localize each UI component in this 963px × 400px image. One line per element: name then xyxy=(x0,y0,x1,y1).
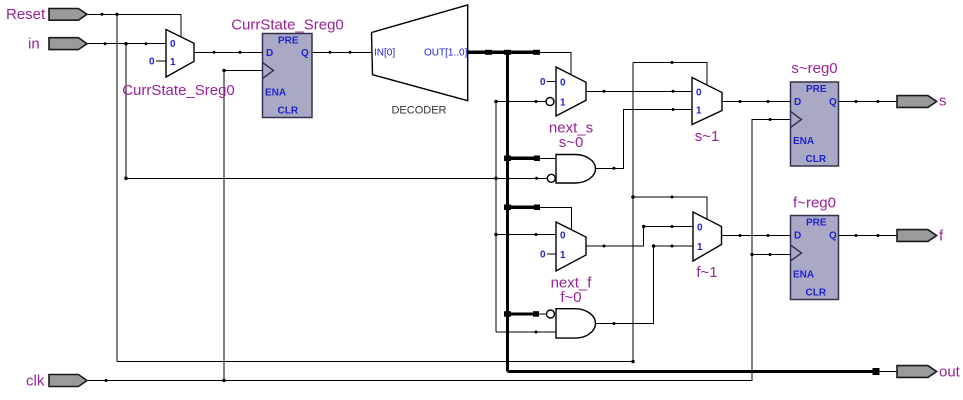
and gate f~0 xyxy=(556,309,595,338)
wire CurrState Q to decoder IN xyxy=(312,51,372,53)
inverter bubble next_s input 1 xyxy=(546,98,554,106)
wire select distribution vertical x633 xyxy=(632,63,634,362)
wire to f~0 bottom input xyxy=(496,331,556,333)
and gate s~0 xyxy=(556,155,595,184)
junction dot xyxy=(329,51,332,54)
svg-text:0: 0 xyxy=(697,223,703,234)
inverter bubble f~0 top input xyxy=(547,310,555,318)
svg-text:s~reg0: s~reg0 xyxy=(791,60,837,77)
svg-text:Q: Q xyxy=(829,97,837,108)
junction dot xyxy=(535,331,538,334)
junction dot xyxy=(671,225,674,228)
junction dot xyxy=(672,90,675,93)
junction dot xyxy=(652,244,656,248)
svg-text:Q: Q xyxy=(829,231,837,242)
junction dot xyxy=(613,167,616,170)
junction dot xyxy=(877,234,880,237)
junction dot xyxy=(631,195,635,199)
svg-text:0: 0 xyxy=(540,250,546,261)
junction dot xyxy=(672,108,675,111)
output port s xyxy=(897,96,937,108)
output port out xyxy=(897,366,937,378)
svg-text:0: 0 xyxy=(540,77,546,88)
svg-text:ENA: ENA xyxy=(265,88,286,99)
wire clk branch to f~reg0 clock xyxy=(752,254,791,256)
bus tap stub to s~0 xyxy=(508,157,539,160)
bus bottom horizontal to out xyxy=(508,370,877,373)
constant 0 dash at next_s input 0 xyxy=(547,81,556,83)
junction dot xyxy=(671,61,674,64)
bus junction blob xyxy=(485,50,492,55)
svg-text:0: 0 xyxy=(149,57,155,68)
input port Reset xyxy=(49,9,87,21)
junction dot xyxy=(613,322,616,325)
mux f~1 xyxy=(693,212,722,261)
svg-text:s~1: s~1 xyxy=(695,128,720,145)
svg-text:f~1: f~1 xyxy=(696,264,717,281)
wire clk vertical x224 to CurrState clock xyxy=(224,71,263,381)
junction dot xyxy=(535,100,538,103)
svg-text:s~0: s~0 xyxy=(559,134,584,151)
svg-text:0: 0 xyxy=(560,231,566,242)
svg-text:in: in xyxy=(28,36,40,53)
flip-flop s~reg0 xyxy=(791,82,839,166)
svg-text:CurrState_Sreg0: CurrState_Sreg0 xyxy=(122,82,235,99)
wire next_s select thin from bus tap xyxy=(539,52,572,75)
junction dot xyxy=(603,245,606,248)
mux CurrState_Sreg0 xyxy=(166,30,194,78)
wire s~1 output to s~reg0 D xyxy=(722,101,791,103)
junction dot xyxy=(115,13,118,16)
output port f xyxy=(897,230,937,242)
junction dot xyxy=(494,100,498,104)
svg-text:DECODER: DECODER xyxy=(391,105,446,117)
junction dot xyxy=(855,100,858,103)
svg-text:CurrState_Sreg0: CurrState_Sreg0 xyxy=(231,17,344,34)
wire in branch vertical x126 xyxy=(125,44,127,179)
svg-text:OUT[1..0]: OUT[1..0] xyxy=(424,48,468,59)
mux next_f xyxy=(556,222,586,271)
wire in distribution vertical x496 xyxy=(495,102,497,333)
constant 0 dash at next_f input 1 xyxy=(547,253,556,255)
svg-text:CLR: CLR xyxy=(806,288,827,299)
junction dot xyxy=(494,177,498,181)
wire out port thin stub xyxy=(876,371,897,373)
svg-text:out: out xyxy=(939,364,961,381)
wire s~reg0 Q to s port xyxy=(839,101,897,103)
wire f~reg0 Q to f port xyxy=(839,235,897,237)
wire f~1 output to f~reg0 D xyxy=(722,235,791,237)
junction dot xyxy=(855,234,858,237)
wire f~0 top input thin from bus tap to bubble xyxy=(539,313,547,315)
junction dot xyxy=(239,51,242,54)
junction dot xyxy=(535,177,538,180)
junction dot xyxy=(535,233,538,236)
svg-text:1: 1 xyxy=(560,98,566,109)
input port clk xyxy=(49,375,87,387)
junction dot xyxy=(631,360,635,364)
junction dot xyxy=(105,379,108,382)
junction dot xyxy=(767,234,770,237)
flip-flop f~reg0 xyxy=(791,216,839,300)
wire to next_s input 1 bubble xyxy=(496,101,546,103)
mux s~1 xyxy=(692,78,722,125)
junction dot xyxy=(739,234,742,237)
junction dot xyxy=(739,100,742,103)
bus vertical main xyxy=(506,52,509,371)
bus junction blob xyxy=(873,368,880,375)
bus junction blob xyxy=(504,156,511,162)
junction dot xyxy=(671,245,674,248)
decoder DECODER xyxy=(372,5,468,101)
wire f~0 output riser to f~1 input 1 xyxy=(596,246,693,324)
svg-text:PRE: PRE xyxy=(806,84,827,95)
input port in xyxy=(49,38,87,50)
wire Reset from port to mux select corner xyxy=(87,13,181,15)
wire Reset branch horizontal y361 xyxy=(117,361,633,363)
svg-text:PRE: PRE xyxy=(806,218,827,229)
junction dot xyxy=(222,379,225,382)
wire clk main xyxy=(87,120,791,381)
constant 0 dash at CurrState mux input 1 xyxy=(156,60,166,62)
junction dot xyxy=(642,225,646,229)
svg-text:f~0: f~0 xyxy=(560,289,581,306)
svg-text:D: D xyxy=(794,97,801,108)
bus tap stub to f~0 xyxy=(508,312,539,315)
wire to next_f input 0 xyxy=(496,234,556,236)
junction dot xyxy=(767,100,770,103)
junction dot xyxy=(769,118,772,121)
svg-text:0: 0 xyxy=(170,39,176,50)
junction dot xyxy=(671,196,674,199)
inverter bubble s~0 bottom input xyxy=(547,174,555,182)
bus junction blob xyxy=(533,311,539,317)
svg-text:D: D xyxy=(266,48,273,59)
svg-text:f~reg0: f~reg0 xyxy=(793,195,836,212)
junction dot xyxy=(222,69,225,72)
junction dot xyxy=(213,51,216,54)
svg-text:Reset: Reset xyxy=(6,6,46,23)
wire in from port to CurrState mux input 0 xyxy=(87,43,166,45)
bus junction blob xyxy=(504,205,511,211)
svg-text:PRE: PRE xyxy=(278,36,299,47)
junction dot xyxy=(769,253,772,256)
svg-text:ENA: ENA xyxy=(793,270,814,281)
svg-text:1: 1 xyxy=(697,242,703,253)
wire s~0 top input thin from bus tap xyxy=(539,157,557,159)
svg-text:Q: Q xyxy=(301,48,309,59)
svg-text:1: 1 xyxy=(170,57,176,68)
svg-text:1: 1 xyxy=(696,106,702,117)
svg-text:0: 0 xyxy=(696,87,702,98)
wire s~1 select horizontal xyxy=(633,63,707,86)
wire next_f output riser to f~1 input 0 xyxy=(586,227,693,247)
wire in distribution horizontal y178 to s~0 bubble xyxy=(126,177,548,179)
bus junction blob xyxy=(504,50,511,55)
svg-text:0: 0 xyxy=(560,78,566,89)
junction dot xyxy=(124,42,127,45)
svg-text:s: s xyxy=(939,93,947,110)
wire f~1 select horizontal xyxy=(633,197,707,220)
junction dot xyxy=(877,100,880,103)
junction dot xyxy=(145,42,148,45)
junction dot xyxy=(104,42,107,45)
wire next_f select thin from bus tap xyxy=(539,207,572,230)
junction dot xyxy=(494,233,498,237)
wire Reset select drop into CurrState mux top xyxy=(180,14,182,36)
wire s~0 output riser to s~1 input 1 xyxy=(596,110,693,169)
bus junction blob xyxy=(533,50,540,55)
wire next_s output to s~1 input 0 xyxy=(586,90,692,92)
mux next_s xyxy=(556,67,586,116)
svg-text:D: D xyxy=(794,231,801,242)
svg-text:IN[0]: IN[0] xyxy=(374,48,395,59)
svg-text:CLR: CLR xyxy=(806,154,827,165)
bus junction blob xyxy=(534,156,540,162)
bus OUT[1..0] horizontal from decoder xyxy=(468,51,539,54)
svg-text:CLR: CLR xyxy=(278,106,299,117)
svg-text:ENA: ENA xyxy=(793,136,814,147)
bus tap stub to next_f select xyxy=(508,206,539,209)
svg-text:clk: clk xyxy=(26,373,45,390)
flip-flop CurrState_Sreg0 xyxy=(263,34,313,118)
wire CurrState mux output to D xyxy=(194,51,263,53)
junction dot xyxy=(124,177,128,181)
wire Reset branch vertical x117 down xyxy=(116,14,118,361)
junction dot xyxy=(349,51,352,54)
junction dot xyxy=(101,13,104,16)
bus junction blob xyxy=(534,205,540,211)
junction dot xyxy=(750,253,753,256)
bus junction blob xyxy=(504,311,511,317)
junction dot xyxy=(603,90,606,93)
svg-text:1: 1 xyxy=(560,250,566,261)
